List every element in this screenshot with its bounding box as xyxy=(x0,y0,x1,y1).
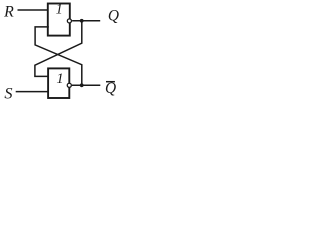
svg-text:Q: Q xyxy=(105,80,116,97)
svg-text:Q: Q xyxy=(108,7,119,24)
svg-text:R: R xyxy=(3,3,14,20)
bubble of U2 output xyxy=(67,83,71,87)
node junction top xyxy=(80,19,84,23)
bubble of U1 output xyxy=(67,19,71,23)
NOR gate U2 (bottom) xyxy=(48,68,69,98)
wire feedback to U2 upper input xyxy=(35,21,82,77)
wire U2 output to Qbar xyxy=(72,84,100,86)
svg-text:1: 1 xyxy=(56,2,63,18)
node junction bottom xyxy=(80,83,84,87)
wire S input xyxy=(16,91,49,93)
NOR gate U1 (top) xyxy=(48,4,70,36)
svg-text:S: S xyxy=(4,84,12,103)
wire U1 output to Q xyxy=(72,20,100,22)
wire R input xyxy=(18,9,49,11)
wire feedback to U1 lower input xyxy=(35,27,82,85)
svg-text:1: 1 xyxy=(56,71,63,87)
overline of Qbar xyxy=(106,81,115,83)
